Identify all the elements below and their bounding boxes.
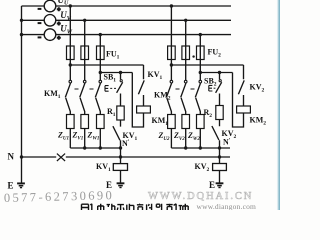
svg-text:KV1: KV1 [148,70,163,81]
contactor KM2 contact pole 1 [166,80,172,114]
speck artifact near FU2 [192,55,194,57]
junction dot bus A right [170,63,173,66]
coil KV2 [219,157,221,164]
wire control bus A right (phase U tap) [171,64,243,66]
fuse FU2 pole 2 [185,46,187,60]
svg-text:R1: R1 [107,107,116,118]
resistor Z_U1 [67,115,75,129]
svg-text:N: N [8,152,15,162]
svg-text:ZV1: ZV1 [72,131,84,142]
polarity minus of source U_W [38,36,42,38]
svg-text:KM1: KM1 [152,116,169,127]
relay contact KV1 (in KM1 coil branch) [138,65,144,106]
junction dot N bus KV1 [119,155,122,158]
junction dot rail W / left drop [99,33,102,36]
junction dot rail U / right drop [170,4,173,7]
junction dot left N-prime bus Z_W1 [99,146,102,149]
relay contact KV1 lower (at left N-prime) [113,120,121,148]
SB1 button actuator E with dashed link [105,86,109,92]
svg-text:FU1: FU1 [106,50,120,61]
ground E middle (below KV1) [117,182,125,184]
wire control bus A left (phase U tap) [70,64,143,66]
wire Z_U1 bottom to left N-prime bus [69,129,71,149]
relay contact KV2 lower (at right N-prime) [212,120,220,149]
resistor Z_V1 [81,115,89,129]
junction dot right N-prime bus Z_W2 [199,146,202,149]
wire Z_U2 bottom to right N-prime bus [170,129,172,149]
junction dot bus B right at SB2 [218,71,221,74]
junction dot rail U / left drop [69,4,72,7]
resistor Z_W1 [97,115,105,129]
svg-text:www.diangon.com: www.diangon.com [197,202,257,210]
polarity plus of source U_U [57,7,61,11]
source U_U (voltage source circle, phase U) [44,0,56,12]
svg-text:ZU2: ZU2 [158,131,171,142]
junction dot bus A left [69,63,72,66]
svg-text:KV1: KV1 [96,162,111,173]
polarity minus of source U_U [38,8,42,10]
junction dot right N-prime point [218,146,221,149]
wire control bus B left (phase W tap) [100,72,132,74]
resistor Z_W2 [197,115,205,129]
junction dot N bus KV2 [218,155,221,158]
SB2 button actuator E with dashed link [209,85,213,91]
relay contact KV2 (in KM2 coil branch) [238,65,244,106]
junction dot rail V / left drop [83,19,86,22]
junction dot rail V / left bus [20,19,23,22]
svg-text:WWW.DQHAI.CN: WWW.DQHAI.CN [148,191,253,202]
wire rail V (middle phase rail) [22,19,232,21]
svg-text:E: E [8,181,14,191]
junction dot bus B left at drop [99,71,102,74]
junction dot left N-prime bus Z_V1 [83,146,86,149]
svg-text:KV2: KV2 [250,83,265,94]
fuse FU1 pole 1 [69,46,71,60]
wire Z_W2 bottom to right N-prime bus [199,129,201,149]
svg-text:KM2: KM2 [250,116,267,127]
KM2 mechanical linkage dashes [176,88,195,90]
wire phase-W drop right group x=200.3 [199,35,201,46]
polarity minus of source U_V [38,22,42,24]
KM1 mechanical linkage dashes [75,88,94,90]
resistor Z_U2 [168,115,176,129]
push button SB2 [216,73,222,106]
wire rail U (top phase rail) [22,5,232,7]
wire rail W (bottom phase rail) [22,34,232,36]
coil KM2 [237,106,251,113]
wire left vertical bus to N and ground [21,6,23,183]
fuse FU2 pole 3 [199,46,201,60]
junction dot right N-prime bus Z_V2 [184,146,187,149]
wire KV1 coil to ground [120,170,122,183]
fuse FU1 pole 2 [84,46,86,60]
resistor R1 [117,106,124,120]
svg-text:N′: N′ [122,139,130,148]
source U_W (voltage source circle, phase W) [44,29,56,41]
wire right N-prime bus [171,147,230,149]
svg-text:ZU1: ZU1 [57,131,69,142]
junction dot bus B right at drop [199,71,202,74]
wire KV2 coil to ground [219,171,221,184]
wire control bus B right (phase W tap) [200,72,232,74]
wire KM1 coil return to bus B left [132,73,143,128]
svg-text:KV2: KV2 [195,162,210,173]
wire Z_W1 bottom to left N-prime bus [99,129,101,149]
svg-text:ZW2: ZW2 [187,131,200,142]
svg-text:R2: R2 [204,108,213,119]
resistor Z_V2 [182,115,190,129]
source U_V (voltage source circle, phase V) [44,14,56,26]
svg-text:E: E [209,180,215,190]
wire right N-prime to N bus [219,148,221,157]
wire left N-prime bus [70,147,120,149]
junction dot bus B left at SB1 [119,71,122,74]
svg-text:KM1: KM1 [44,89,61,100]
wire phase-W drop left group x=100.3 [99,35,101,46]
coil KV1 [120,157,122,164]
wire Z_V2 bottom to right N-prime bus [185,129,187,149]
resistor R2 [216,106,223,120]
polarity plus of source U_W [57,36,61,40]
svg-text:N′: N′ [223,138,231,147]
svg-text:SB1: SB1 [104,73,117,84]
caption 图1 strokes (clipped CJK) [82,204,92,210]
ground E left [17,182,25,184]
svg-text:ZV2: ZV2 [173,131,185,142]
page edge blue strip [276,0,280,210]
wire phase-U drop right group x=171.4 [170,6,172,46]
svg-text:0577-62730690: 0577-62730690 [4,188,115,205]
wire phase-U drop left group x=70.3 [69,6,71,46]
svg-text:FU2: FU2 [208,48,222,59]
wire N bus with break [22,156,231,158]
wire phase-V drop right group x=185.7 [185,20,187,46]
junction dot N bus left [20,155,23,158]
fuse FU2 pole 1 [170,46,172,60]
wire Z_V1 bottom to left N-prime bus [84,129,86,149]
wire below fuse FU2 to KM2 contacts [171,60,200,81]
junction dot rail W / right drop [199,33,202,36]
junction dot rail W / left bus [20,33,23,36]
push button SB1 [117,73,123,107]
contactor KM1 contact pole 2 [80,80,86,114]
wire below fuse FU1 to KM1 contacts [70,60,100,81]
contactor KM1 contact pole 1 [65,80,71,114]
coil KM1 [137,106,151,113]
break mark x on N bus [57,154,65,161]
wire phase-V drop left group x=84.7 [84,20,86,46]
wire KM2 coil return to bus B right [233,73,244,128]
junction dot left N-prime point [119,146,122,149]
contactor KM2 contact pole 3 [195,80,201,114]
svg-text:ZW1: ZW1 [87,131,100,142]
contactor KM1 contact pole 3 [95,80,101,114]
contactor KM2 contact pole 2 [181,80,187,114]
junction dot rail V / right drop [184,19,187,22]
fuse FU1 pole 3 [99,46,101,60]
caption 电源换相序的保护电路 strokes (clipped CJK) [98,204,189,210]
ground E right (below KV2) [216,182,224,184]
wire left N-prime to N bus [120,148,122,157]
polarity plus of source U_V [57,22,61,26]
